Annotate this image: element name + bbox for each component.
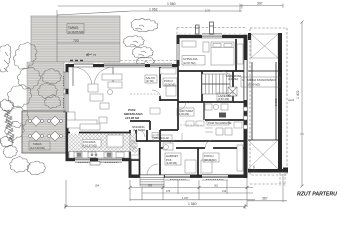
svg-text:390: 390: [148, 185, 153, 188]
dimension texts: [95, 2, 300, 207]
svg-text:1 402: 1 402: [296, 90, 300, 99]
hall wall: [160, 129, 178, 131]
carport X area: [251, 34, 278, 58]
703 dim over hatch: [57, 42, 120, 44]
svg-text:(2,35 M2): (2,35 M2): [228, 78, 238, 81]
svg-text:POM.TECHNICZNE: POM.TECHNICZNE: [208, 121, 232, 125]
upper wing top wall: [177, 35, 248, 38]
closet wall right of bedroom: [235, 39, 237, 71]
kitchen top wall: [67, 132, 70, 134]
living room: L-sofa bottom-left: [67, 112, 75, 127]
svg-text:354: 354: [95, 185, 100, 188]
svg-text:(9,06 M2): (9,06 M2): [166, 161, 177, 165]
top dim line 1560: [58, 5, 242, 7]
small circles left of garage: [243, 107, 247, 129]
cabinets right wall of salon: [102, 74, 122, 80]
tech room extra: [234, 122, 242, 128]
top dim line 1062: [131, 10, 242, 12]
svg-text:(A 4,70 M2): (A 4,70 M2): [133, 129, 146, 132]
svg-text:GABINET: GABINET: [166, 154, 179, 158]
bottom long 1560: [65, 206, 245, 208]
tables (diamonds) with chairs: [29, 116, 63, 141]
tall cypress left edge: [0, 45, 11, 73]
double door swing top-left: [73, 67, 92, 86]
svg-text:KUCHNIA: KUCHNIA: [83, 140, 96, 144]
bushes over terrace column: [38, 69, 62, 109]
svg-text:(9,30 M2): (9,30 M2): [178, 112, 189, 116]
sofa cluster mid: [88, 84, 98, 92]
vertical wall x=199 between rooms: [197, 148, 199, 175]
bottom wall right section: [129, 175, 248, 178]
garage X area low: [248, 140, 278, 169]
wall under bedroom: [178, 70, 244, 72]
svg-text:POKOJ: POKOJ: [164, 79, 173, 83]
bedroom bed: [211, 42, 234, 65]
tick slashes on bottom dims: [65, 186, 249, 208]
svg-text:RZUT PARTERU: RZUT PARTERU: [297, 192, 337, 198]
svg-text:361: 361: [214, 185, 219, 188]
svg-text:143,96 M2: 143,96 M2: [125, 116, 140, 120]
terrace dim 703: [57, 42, 120, 44]
vertical x=136 pantry: [135, 130, 137, 141]
75 arrow mark: [86, 53, 92, 56]
window outer sill lines: [64, 34, 228, 181]
wall x=147 wiatrolap: [146, 130, 148, 141]
rooms bottom furniture: [163, 143, 173, 150]
top-left wall: [66, 64, 179, 67]
radiator ticks under windows: [64, 76, 225, 180]
extension ticks bottom: [65, 180, 67, 207]
small room top right of salon: [159, 67, 161, 88]
svg-text:476: 476: [166, 190, 171, 193]
vent dashes row: [70, 60, 83, 62]
canopy dashes: [250, 28, 287, 175]
svg-text:POKOJ: POKOJ: [204, 154, 214, 158]
top right 397: [240, 5, 283, 7]
hall small table: [150, 108, 160, 114]
svg-text:(10,41 M2): (10,41 M2): [204, 158, 217, 162]
window thin lines in walls (white gap + thin lines): [63, 34, 246, 181]
garage interior walls: [251, 62, 253, 140]
svg-text:1 210: 1 210: [252, 165, 256, 172]
svg-text:1 062: 1 062: [149, 7, 158, 11]
svg-text:1 037: 1 037: [182, 197, 189, 200]
corridor bottom wall: [160, 147, 168, 149]
left column: [27, 62, 64, 111]
top terrace: [31, 16, 120, 62]
svg-text:1 560: 1 560: [167, 2, 176, 6]
left wall: [66, 64, 69, 161]
vertical wall x=178 living/corridor: [177, 66, 179, 130]
right wall: [244, 35, 248, 178]
wall y=120: [205, 119, 244, 121]
svg-text:(27,90): (27,90): [146, 80, 154, 83]
svg-text:(A 17,60 M2): (A 17,60 M2): [30, 146, 45, 150]
lower terrace with tables: [22, 111, 67, 153]
svg-text:TARAS: TARAS: [33, 142, 42, 146]
wardrobe right of living: [160, 68, 176, 74]
tech room: [216, 128, 223, 135]
svg-text:SYPIALNIA: SYPIALNIA: [183, 57, 198, 61]
upper wing left wall: [177, 35, 180, 66]
corridor bottom wall y=140: [130, 140, 244, 142]
svg-text:(12,97 M2): (12,97 M2): [183, 61, 196, 65]
bath fixtures: [205, 104, 212, 110]
svg-text:WIATROLAP: WIATROLAP: [154, 136, 169, 140]
svg-text:0,70: 0,70: [205, 9, 211, 13]
svg-text:wjazd: wjazd: [288, 99, 295, 102]
svg-text:(9,87 M2): (9,87 M2): [218, 97, 229, 101]
garage walls: [278, 33, 282, 172]
front door: [146, 175, 160, 177]
dark hedge scribble left edge: [0, 100, 14, 148]
label boxes: [29, 24, 280, 166]
svg-text:367: 367: [262, 197, 268, 201]
canopy dashed outline upper wing: [100, 28, 285, 187]
pantry walls: [130, 120, 150, 122]
corridor dashes: [180, 124, 202, 126]
canopy posts above upper wing wall: [196, 22, 214, 34]
svg-text:1 560: 1 560: [188, 202, 197, 206]
svg-text:397: 397: [257, 2, 263, 6]
walls around bath: [201, 71, 203, 102]
dining table in checker area: [107, 135, 123, 147]
right vertical 1402: [301, 22, 303, 186]
shower X box: [228, 87, 237, 96]
svg-text:703: 703: [73, 39, 79, 43]
step down wall: [129, 158, 132, 177]
svg-text:412: 412: [222, 190, 227, 193]
window ticks on left wall: [63, 72, 69, 112]
bottom intermediate lines: [142, 192, 253, 194]
wc fixtures: [133, 148, 137, 152]
wall y=102: [178, 101, 244, 103]
door arcs interior: [138, 71, 230, 148]
kitchen bottom wall: [66, 158, 132, 161]
